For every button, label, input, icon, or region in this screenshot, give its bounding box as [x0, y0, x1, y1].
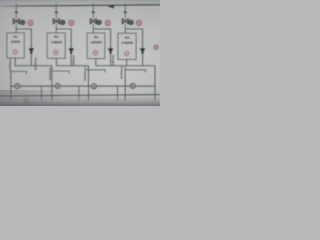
bus flow arrow	[107, 5, 114, 9]
switch S2b (closed, filled)	[69, 48, 74, 53]
meter M1 on lower bus	[15, 84, 20, 89]
indicator lamp 2 (dark circle-X)	[60, 20, 64, 24]
wire: bay 4 branch with closed switch	[142, 29, 144, 66]
wire: bottom border line	[0, 95, 160, 97]
wire: switch 4 to junction	[124, 24, 126, 30]
wire: lower meter bus	[11, 85, 155, 87]
wire: bay 2 horizontal connector	[56, 28, 71, 30]
meter in box R4 (pink)	[124, 51, 129, 56]
meter in box R3 (pink)	[93, 51, 98, 56]
wire: bay 1 step horizontal	[15, 65, 52, 67]
wire: feeder 4 drop from bus	[124, 3, 126, 19]
wire: drain vertical bay2	[78, 86, 80, 101]
grain overlay	[0, 0, 160, 106]
switch S1b (closed, filled)	[29, 48, 34, 53]
wire: bay 4 step horizontal	[126, 65, 155, 67]
wire: bay 3 step horizontal	[95, 65, 125, 67]
bus (main 11kV busbar)	[0, 5, 160, 6]
wire: bay 3 horizontal connector	[93, 28, 111, 30]
wire: box R3 bottom drop	[95, 59, 97, 67]
wire: switch 3 to junction	[92, 24, 94, 30]
wire: box R2 bottom drop	[55, 58, 57, 66]
wire: bay 4 shelf line	[125, 70, 145, 73]
wire: bay 2 drop into load box	[55, 29, 57, 34]
wire: drain vertical bay1	[41, 86, 43, 101]
wire: bay 4 drop into load box	[124, 29, 126, 34]
switch S3 (open bowtie)	[90, 19, 96, 24]
wire: step vertical to lower bus (bay2->3)	[88, 66, 90, 101]
wire: feeder 1 drop from bus	[15, 3, 17, 19]
wire: drain vertical bay3	[117, 86, 119, 101]
wire: bay 2 branch with closed switch	[70, 29, 72, 66]
wire: bay 3 drop into load box	[92, 29, 94, 34]
bottom shadow band	[0, 96, 160, 106]
indicator lamp 3 (dark circle-X)	[97, 20, 101, 24]
node: feeder 1 tap dot	[15, 11, 18, 13]
instrument P1 (pink circle)	[28, 20, 33, 25]
standalone meter right margin	[154, 45, 158, 49]
wire: switch 1 to junction	[15, 24, 17, 30]
wire: switch 2 to junction	[55, 24, 57, 30]
node: feeder 4 tap dot	[124, 11, 127, 13]
wire: step vertical to lower bus (bay3->4)	[124, 66, 126, 101]
wire: bay 1 horizontal connector	[16, 28, 31, 30]
switch S4 (open bowtie)	[122, 19, 128, 24]
indicator lamp 1 (dark circle-X)	[20, 20, 24, 24]
wire: step vertical to lower bus (bay1->2)	[51, 66, 53, 101]
wire: bay 1 shelf line	[11, 72, 27, 75]
switch S2 (open bowtie)	[53, 19, 59, 24]
wire: bay 3 shelf line	[86, 70, 105, 73]
wire: bay 1 branch with closed switch	[30, 29, 32, 66]
switch S3b (closed, filled)	[108, 48, 113, 53]
indicator lamp 4 (dark circle-X)	[129, 20, 133, 24]
instrument P4 (pink circle)	[136, 20, 141, 25]
node: feeder 3 tap dot	[92, 11, 95, 13]
instrument bottom (pink circle)	[24, 98, 29, 103]
instrument P2 (pink circle)	[69, 20, 74, 25]
switch S4b (closed, filled)	[140, 48, 145, 53]
switch S1 (open bowtie)	[13, 19, 19, 24]
wire: bay 2 shelf line	[52, 71, 69, 74]
meter M4 on lower bus	[130, 84, 135, 89]
wire: bay 2 step horizontal	[56, 65, 89, 67]
meter in box R2 (pink)	[54, 50, 59, 55]
wire: box R1 bottom drop	[14, 58, 16, 66]
wire: feeder 2 drop from bus	[55, 3, 57, 19]
load box R4	[118, 33, 136, 59]
load box R3	[87, 33, 105, 59]
load box R1	[7, 33, 24, 58]
instrument P3 (pink circle)	[105, 20, 110, 25]
wire: left border vertical	[10, 71, 12, 100]
node: feeder 2 tap dot	[55, 11, 58, 13]
load box R2	[47, 33, 65, 58]
wire: step vertical right end	[154, 66, 156, 101]
wire: bay 4 horizontal connector	[125, 28, 143, 30]
meter M3 on lower bus	[92, 84, 97, 89]
wire: box R4 bottom drop	[126, 59, 128, 66]
meter M2 on lower bus	[55, 84, 60, 89]
background	[0, 0, 160, 106]
meter in box R1 (pink)	[13, 50, 18, 55]
wire: bay 1 drop into load box	[15, 29, 17, 34]
wire: bay 3 branch with closed switch	[110, 29, 112, 66]
wire: feeder 3 drop from bus	[92, 3, 94, 19]
